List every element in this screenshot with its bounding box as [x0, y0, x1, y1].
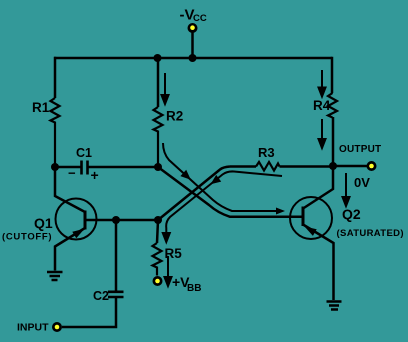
svg-text:R2: R2 — [166, 109, 183, 124]
svg-text:(SATURATED): (SATURATED) — [337, 228, 404, 239]
svg-text:R1: R1 — [32, 100, 50, 115]
svg-text:−: − — [68, 166, 76, 181]
svg-text:INPUT: INPUT — [17, 322, 49, 334]
svg-text:BB: BB — [187, 283, 201, 294]
svg-text:C1: C1 — [76, 146, 92, 160]
svg-text:C2: C2 — [93, 289, 109, 303]
svg-text:CC: CC — [193, 13, 207, 24]
svg-text:(CUTOFF): (CUTOFF) — [2, 232, 52, 243]
svg-text:0V: 0V — [354, 175, 370, 190]
svg-text:Q1: Q1 — [34, 215, 53, 231]
svg-text:Q2: Q2 — [342, 206, 361, 222]
svg-text:R4: R4 — [313, 98, 331, 113]
svg-text:+: + — [91, 167, 99, 183]
svg-text:R3: R3 — [258, 145, 275, 160]
svg-text:OUTPUT: OUTPUT — [339, 144, 381, 155]
svg-text:R5: R5 — [165, 246, 183, 261]
